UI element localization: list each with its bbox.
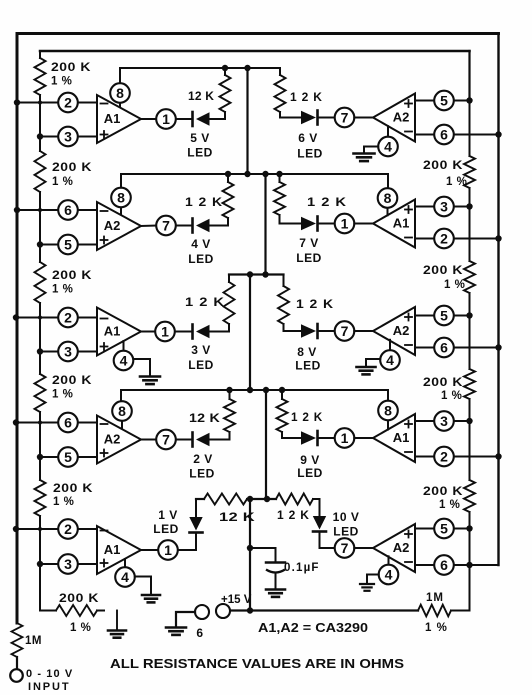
svg-text:6: 6	[196, 626, 203, 640]
pin 7 A2 row3 output	[335, 321, 355, 341]
wire center rail seg2	[264, 174, 266, 275]
wire input lead	[16, 657, 18, 669]
wire out A1 row1	[141, 118, 156, 120]
svg-text:8: 8	[118, 403, 126, 419]
wire row5 rail mid	[250, 498, 276, 500]
svg-text:3: 3	[64, 128, 72, 144]
wire pin6 row1	[415, 134, 499, 136]
LED 7V row2	[301, 217, 335, 231]
svg-text:1 2 K: 1 2 K	[291, 410, 323, 424]
wire cap tap	[250, 547, 276, 549]
wire pin4 row5 to ground	[135, 577, 151, 595]
svg-text:1: 1	[161, 323, 169, 339]
svg-text:5: 5	[64, 236, 72, 252]
label LED 8V	[295, 359, 321, 373]
op-amp A2 row5 right	[373, 524, 415, 572]
pin 1 A1 row3 output	[155, 322, 175, 342]
svg-text:3: 3	[64, 343, 72, 359]
wire left divider seg4	[39, 423, 41, 458]
resistor 12K row2 left	[210, 174, 234, 226]
label 6	[196, 626, 203, 640]
capacitor C1 0.1uF	[266, 548, 285, 589]
svg-text:12 K: 12 K	[219, 510, 255, 524]
sign minus A2 row5	[405, 561, 412, 563]
svg-text:LED: LED	[153, 522, 179, 536]
node row5 center rail down	[247, 496, 253, 502]
wire pin3 row3 to divider	[40, 351, 97, 353]
svg-text:6: 6	[64, 202, 72, 218]
resistor 200K 1% left divider row3	[35, 245, 46, 318]
svg-text:A1: A1	[393, 430, 410, 445]
pin 1 A1 row4 output	[335, 428, 355, 448]
wire pin2 row3 to rail	[17, 317, 97, 319]
svg-text:1 %: 1 %	[425, 622, 448, 634]
pin 3 A1 row2	[434, 197, 454, 217]
node +15V bus tap	[247, 607, 253, 613]
sign plus A2 row4	[101, 450, 108, 457]
op-amp A1 row1 left	[97, 95, 141, 143]
pin 2 A1 row5	[58, 519, 78, 539]
wire left input rail	[16, 34, 19, 624]
svg-text:ALL RESISTANCE VALUES ARE IN O: ALL RESISTANCE VALUES ARE IN OHMS	[110, 657, 404, 671]
wire out A2 row3	[354, 330, 373, 332]
pin 5 A2 row5	[434, 519, 454, 539]
wire top border input bus	[17, 32, 499, 35]
op-amp A2 row2 left	[97, 202, 141, 250]
pin 8 A1 row1	[110, 68, 130, 108]
svg-text:1M: 1M	[426, 592, 444, 604]
wire out A1 row2	[354, 223, 373, 225]
resistor 12K row5 right (horizontal)	[276, 494, 320, 505]
wire pin6 row4 to rail	[17, 422, 97, 424]
wire out A1 row3	[141, 331, 155, 333]
svg-text:8: 8	[117, 189, 125, 205]
pin 3 A1 row3	[58, 342, 78, 362]
pin 5 A2 row4	[58, 447, 78, 467]
pin 4 A1 row5 left	[115, 559, 135, 587]
label LED 2V	[189, 467, 215, 481]
LED 1V row5 (vertical)	[178, 499, 203, 550]
wire pin2 row5 to rail	[17, 528, 97, 530]
svg-text:INPUT: INPUT	[28, 681, 71, 693]
label 200K row2 left	[52, 160, 92, 174]
label 12K row1 left	[188, 89, 214, 103]
svg-text:6: 6	[440, 557, 448, 573]
label 4V	[191, 237, 211, 251]
LED 6V row1	[301, 111, 335, 125]
svg-text:8: 8	[384, 402, 392, 418]
svg-text:A2: A2	[393, 540, 410, 555]
op-amp A1 row3 left	[97, 308, 141, 356]
label 0-10V	[26, 668, 73, 680]
node pin2 row1 rail	[14, 99, 20, 105]
resistor 12K row4 left	[210, 390, 236, 440]
svg-text:1 %: 1 %	[52, 389, 73, 401]
pin 3 A1 row1	[58, 127, 78, 147]
label 200K row4 left	[52, 373, 92, 387]
wire pin5 row1	[415, 100, 470, 102]
node pin6 row4 crossover	[38, 421, 42, 425]
svg-text:1 V: 1 V	[158, 508, 178, 522]
node pin6 row1 rail	[495, 131, 501, 137]
pin 7 A2 row2 output	[156, 216, 176, 236]
svg-text:1M: 1M	[25, 635, 42, 647]
label A1,A2 = CA3290	[258, 621, 368, 635]
label LED 3V	[188, 358, 214, 372]
pin 5 A2 row2	[58, 235, 78, 255]
pin 8 A1 row2 right	[378, 188, 398, 215]
svg-text:9 V: 9 V	[300, 453, 320, 467]
ground terminal 6	[166, 628, 186, 635]
wire center rail seg1	[246, 68, 248, 174]
wire center rail seg3	[249, 275, 251, 391]
label 1% row4 right	[439, 499, 460, 511]
svg-text:A1: A1	[104, 324, 121, 339]
pin 2 A1 row4	[434, 447, 454, 467]
pin 4 A2 row1	[378, 126, 398, 156]
label LED 6V	[297, 147, 323, 161]
node pin5 row2 divider	[37, 241, 43, 247]
label 200K row4 right	[423, 484, 463, 498]
pin 8 A2 row4 left	[112, 401, 132, 429]
label 200K row5 left	[53, 481, 93, 495]
label 2V	[193, 452, 213, 466]
sign minus A1 row5	[101, 530, 108, 532]
label 5V	[190, 131, 210, 145]
label 12K row2 right	[307, 195, 347, 209]
node row4 center rail bottom	[263, 387, 269, 393]
wire +15V bus bottom	[230, 609, 418, 611]
label 1M bottom right	[426, 592, 444, 604]
node row1 12K left	[222, 65, 228, 71]
node pin2 row2 rail	[495, 235, 501, 241]
pin 6 A2 row1	[434, 125, 454, 145]
LED 3V row3	[176, 325, 210, 339]
pin 6 A2 row3	[434, 338, 454, 358]
node pin6 row5 1M tap	[466, 562, 472, 568]
svg-text:5: 5	[440, 92, 448, 108]
svg-text:1: 1	[162, 111, 170, 127]
pin 6 A2 row4	[58, 413, 78, 433]
node row2 center rail top	[244, 171, 250, 177]
wire out A2 row2	[141, 225, 156, 228]
label 1% row2 right	[444, 279, 465, 291]
svg-text:1 %: 1 %	[441, 390, 462, 402]
svg-text:A2: A2	[104, 218, 121, 233]
svg-text:LED: LED	[333, 525, 359, 539]
wire left divider seg1	[39, 103, 41, 137]
node pin6 row3 rail	[495, 344, 501, 350]
wire pin2 row2	[415, 238, 499, 240]
label 12K row5 left	[219, 510, 255, 524]
node row2 12K left	[225, 171, 231, 177]
svg-text:5: 5	[440, 307, 448, 323]
wire left divider seg2	[39, 210, 41, 243]
svg-text:LED: LED	[188, 358, 214, 372]
svg-text:4: 4	[120, 352, 128, 368]
label 1% row3 right	[441, 390, 462, 402]
resistor 200K 1% right divider row1	[464, 101, 475, 207]
node pin5 row4 divider	[37, 454, 43, 460]
label LED 10V	[333, 525, 359, 539]
wire row5 V+ rail left	[196, 498, 204, 500]
svg-text:4 V: 4 V	[191, 237, 211, 251]
op-amp A1 row2 right	[373, 200, 415, 248]
pin 3 A1 row5	[58, 554, 78, 574]
node pin3 row2 divider	[466, 203, 472, 209]
node pin5 row1 divider	[466, 97, 472, 103]
wire pin6 row2 to rail	[17, 209, 97, 211]
svg-text:8 V: 8 V	[297, 345, 317, 359]
svg-text:1 %: 1 %	[446, 176, 467, 188]
svg-text:6: 6	[440, 339, 448, 355]
svg-text:0 - 10 V: 0 - 10 V	[26, 668, 73, 680]
label 0.1uF	[284, 562, 320, 574]
wire pin2 row1 to rail	[17, 102, 97, 104]
svg-text:1 2 K: 1 2 K	[277, 508, 310, 522]
svg-text:1: 1	[341, 430, 349, 446]
label 8V	[297, 345, 317, 359]
wire out A2 row4	[141, 439, 156, 441]
LED 5V row1	[176, 112, 210, 126]
label LED 4V	[188, 252, 214, 266]
node row2 center rail bottom	[262, 171, 268, 177]
svg-text:4: 4	[121, 569, 129, 585]
svg-text:LED: LED	[296, 251, 322, 265]
svg-text:A2: A2	[393, 110, 410, 125]
node pin2 row4 rail	[495, 453, 501, 459]
svg-text:2: 2	[440, 230, 448, 246]
svg-text:5 V: 5 V	[190, 131, 210, 145]
pin 4 A1 row3 left	[114, 341, 134, 370]
resistor 1M 1% bottom right (horizontal)	[418, 605, 470, 617]
label 12K row2 left	[185, 195, 223, 209]
wire left divider seg5	[39, 529, 41, 565]
LED 8V row3	[301, 324, 335, 338]
pin 5 A2 row3	[434, 306, 454, 326]
resistor 200K 1% left divider row1	[35, 51, 46, 103]
pin 6 A2 row5	[434, 555, 454, 575]
wire pin4 row3 to ground	[133, 359, 150, 376]
svg-text:1 %: 1 %	[53, 496, 74, 508]
svg-text:2: 2	[64, 309, 72, 325]
wire divider top link	[40, 50, 470, 53]
svg-text:200 K: 200 K	[423, 263, 463, 277]
svg-text:2: 2	[64, 521, 72, 537]
svg-text:4: 4	[385, 566, 393, 582]
svg-text:4: 4	[384, 138, 392, 154]
label 1% row5 left	[53, 496, 74, 508]
svg-text:1 %: 1 %	[51, 76, 72, 88]
wire out A1 row4	[354, 437, 373, 439]
svg-text:LED: LED	[297, 466, 323, 480]
wire right input rail	[497, 34, 499, 566]
label 1V	[158, 508, 178, 522]
ground A1 row3	[140, 377, 160, 385]
wire right divider bottom drop	[469, 529, 471, 611]
wire pin5 row3	[415, 315, 470, 317]
pin 2 A1 row3	[58, 308, 78, 328]
wire out A2 row1	[354, 117, 373, 119]
ground A2 row3	[357, 367, 376, 374]
svg-text:200 K: 200 K	[423, 375, 463, 389]
LED 10V row5 (vertical)	[313, 499, 335, 548]
svg-text:1 2 K: 1 2 K	[290, 90, 323, 104]
wire pin3 row2	[415, 206, 470, 208]
svg-text:LED: LED	[295, 359, 321, 373]
node pin6 row4 rail	[13, 419, 19, 425]
resistor 12K row4 right	[277, 390, 302, 438]
svg-text:1 %: 1 %	[439, 499, 460, 511]
label 1% bottom left	[70, 622, 91, 634]
svg-text:12 K: 12 K	[188, 89, 214, 103]
label 200K bottom left	[59, 591, 99, 605]
resistor 12K row3 right	[278, 275, 301, 332]
pin 7 A2 row1 output	[335, 108, 355, 128]
wire pin4 row5 right to ground	[367, 575, 379, 584]
node pin3 row4 divider	[466, 418, 472, 424]
resistor 200K 1% right divider row2	[464, 207, 475, 316]
wire divider top right drop	[468, 51, 470, 101]
node pin2 row5 rail	[13, 526, 19, 532]
label 200K row3 left	[52, 268, 92, 282]
svg-text:7 V: 7 V	[299, 236, 319, 250]
pin 7 A2 row4 output	[156, 430, 176, 450]
svg-text:8: 8	[384, 190, 392, 206]
sign minus A1 row2	[405, 237, 412, 239]
resistor 12K row3 left	[210, 275, 235, 332]
sign minus A2 row1	[405, 131, 412, 133]
wire left divider bottom drop	[40, 565, 56, 611]
wire left divider seg3	[39, 318, 41, 352]
pin 3 A1 row4	[434, 411, 454, 431]
svg-text:LED: LED	[189, 467, 215, 481]
svg-text:3: 3	[64, 556, 72, 572]
pin 2 A1 row2	[434, 229, 454, 249]
label LED 1V	[153, 522, 179, 536]
resistor 1M input (vertical, bottom left)	[12, 623, 23, 657]
svg-text:6 V: 6 V	[298, 131, 318, 145]
svg-text:8: 8	[116, 85, 124, 101]
pin 4 A2 row5	[379, 556, 399, 584]
wire pin3 row5 to divider	[40, 563, 97, 565]
svg-text:3: 3	[440, 413, 448, 429]
terminal 6 (ground)	[195, 605, 209, 619]
pin 5 A2 row1	[434, 91, 454, 111]
label 1% row3 left	[52, 284, 73, 296]
wire pin3 row1 to divider	[40, 136, 97, 138]
label 10V	[333, 510, 360, 524]
label LED 9V	[297, 466, 323, 480]
node row1 center rail	[244, 65, 250, 71]
pin 8 A2 row2 left	[111, 188, 131, 216]
sign plus A2 row5	[405, 531, 412, 538]
LED 4V row2	[176, 219, 210, 233]
svg-text:200 K: 200 K	[59, 591, 99, 605]
svg-text:7: 7	[341, 109, 349, 125]
svg-text:1 %: 1 %	[444, 279, 465, 291]
svg-text:200 K: 200 K	[51, 60, 91, 74]
resistor 12K row1 right	[275, 75, 302, 118]
svg-text:A1: A1	[393, 216, 410, 231]
op-amp A1 row5 left	[97, 526, 141, 574]
sign minus A2 row2	[101, 210, 108, 212]
pin 1 A1 row5 output	[158, 540, 178, 560]
wire pin5 row4 to divider	[40, 456, 97, 458]
wire row1 V+ rail	[120, 68, 280, 75]
svg-text:10 V: 10 V	[333, 510, 360, 524]
svg-text:200 K: 200 K	[423, 158, 463, 172]
node row4 center rail top	[247, 387, 253, 393]
resistor 200K 1% left divider row5	[35, 457, 46, 529]
node row3 center rail bottom	[262, 271, 268, 277]
svg-text:200 K: 200 K	[53, 481, 93, 495]
sign minus A1 row4	[405, 451, 412, 453]
node pin5 row5 divider	[466, 525, 472, 531]
sign plus A1 row1	[101, 131, 108, 138]
wire pin4 row1 to ground	[364, 147, 378, 153]
pin 8 A1 row4 right	[378, 401, 398, 430]
sign plus A2 row3	[405, 314, 412, 321]
svg-text:+15 V: +15 V	[221, 594, 252, 606]
wire pin5 row5	[415, 528, 470, 530]
LED 2V row4	[176, 433, 210, 447]
label 12K row4 left	[189, 411, 220, 425]
sign plus A2 row2	[101, 237, 108, 244]
ground bottom left divider	[108, 611, 126, 638]
resistor 12K row2 right	[274, 174, 301, 224]
svg-text:A1: A1	[104, 111, 121, 126]
svg-text:3: 3	[440, 198, 448, 214]
svg-text:0.1µF: 0.1µF	[284, 562, 320, 574]
svg-text:1: 1	[341, 215, 349, 231]
svg-text:2 V: 2 V	[193, 452, 213, 466]
wire out A1 row5	[141, 549, 158, 551]
svg-text:1: 1	[164, 542, 172, 558]
label INPUT	[28, 681, 71, 693]
wire out A2 row5	[354, 547, 373, 549]
svg-text:200 K: 200 K	[423, 484, 463, 498]
svg-text:6: 6	[440, 126, 448, 142]
label 3V	[191, 343, 211, 357]
label 12K row5 right	[277, 508, 310, 522]
label 12K row3 left	[185, 295, 225, 309]
svg-text:1 %: 1 %	[52, 176, 73, 188]
svg-text:LED: LED	[297, 147, 323, 161]
label 1% bottom right	[425, 622, 448, 634]
label 200K row1 right	[423, 158, 463, 172]
svg-text:LED: LED	[188, 252, 214, 266]
label 1% row1 left	[51, 76, 72, 88]
node row5 center rail up	[264, 496, 270, 502]
label 12K row3 right	[296, 297, 334, 311]
label +15V	[221, 594, 252, 606]
svg-text:1 2 K: 1 2 K	[296, 297, 334, 311]
ground A1 row5	[142, 595, 160, 602]
node pin3 row3 divider	[37, 348, 43, 354]
svg-text:1 %: 1 %	[70, 622, 91, 634]
node pin3 row5 divider	[37, 561, 43, 567]
label 7V	[299, 236, 319, 250]
label 200K row2 right	[423, 263, 463, 277]
label LED 7V	[296, 251, 322, 265]
resistor 200K 1% left divider row2	[35, 137, 46, 211]
wire center rail seg5	[249, 499, 251, 611]
label 6V	[298, 131, 318, 145]
pin 1 A1 row1 output	[156, 109, 176, 129]
wire pin4 row3 right to ground	[366, 359, 380, 366]
LED 9V row4	[301, 431, 335, 445]
